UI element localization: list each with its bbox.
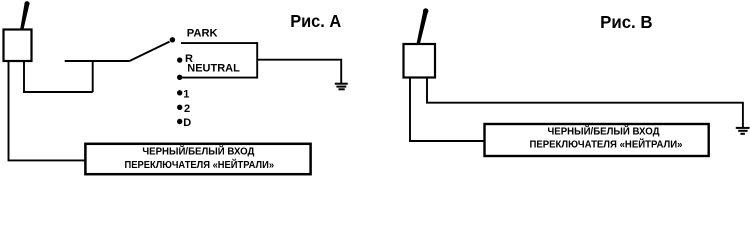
node PARK contact	[170, 37, 175, 42]
wire SW1 left leg to input box A	[9, 61, 86, 160]
ground GND1	[335, 84, 348, 90]
svg-text:Рис. В: Рис. В	[600, 12, 653, 32]
wire riser to wiper pivot	[92, 61, 94, 92]
toggle switch SW1 lever	[20, 1, 30, 30]
node NEUTRAL contact	[177, 75, 182, 80]
ground GND2	[736, 128, 750, 134]
wire SW2 left leg to input box B	[410, 78, 485, 142]
toggle switch SW2 body	[404, 44, 436, 78]
node R contact	[177, 57, 182, 62]
node 2 contact	[177, 105, 182, 110]
toggle switch SW1 body	[4, 30, 32, 62]
input box A	[85, 144, 310, 174]
wire wiper pivot line	[65, 60, 130, 62]
wire PARK branch top	[181, 42, 257, 44]
svg-text:1: 1	[183, 89, 189, 101]
node 1 contact	[177, 90, 182, 95]
node D contact	[177, 119, 182, 124]
wire to ground GND1	[257, 60, 341, 84]
toggle switch SW2 lever	[417, 8, 429, 44]
svg-text:2: 2	[184, 103, 190, 115]
input box B	[485, 124, 709, 156]
svg-text:ЧЕРНЫЙ/БЕЛЫЙ ВХОД: ЧЕРНЫЙ/БЕЛЫЙ ВХОД	[142, 144, 254, 157]
wire right bus	[256, 42, 258, 78]
wire bottom jumper	[23, 91, 93, 93]
svg-text:PARK: PARK	[187, 27, 218, 39]
svg-text:ПЕРЕКЛЮЧАТЕЛЯ «НЕЙТРАЛИ»: ПЕРЕКЛЮЧАТЕЛЯ «НЕЙТРАЛИ»	[530, 137, 683, 150]
wire NEUTRAL branch bottom	[181, 77, 258, 79]
svg-text:ПЕРЕКЛЮЧАТЕЛЯ «НЕЙТРАЛИ»: ПЕРЕКЛЮЧАТЕЛЯ «НЕЙТРАЛИ»	[125, 158, 275, 171]
switch arm wiper	[130, 42, 170, 61]
svg-text:D: D	[183, 117, 191, 129]
wire SW1 right leg	[23, 61, 25, 92]
svg-text:ЧЕРНЫЙ/БЕЛЫЙ ВХОД: ЧЕРНЫЙ/БЕЛЫЙ ВХОД	[548, 125, 660, 138]
wire SW2 right leg to ground GND2	[427, 78, 743, 129]
svg-text:NEUTRAL: NEUTRAL	[187, 62, 240, 74]
svg-text:Рис. А: Рис. А	[290, 11, 341, 31]
